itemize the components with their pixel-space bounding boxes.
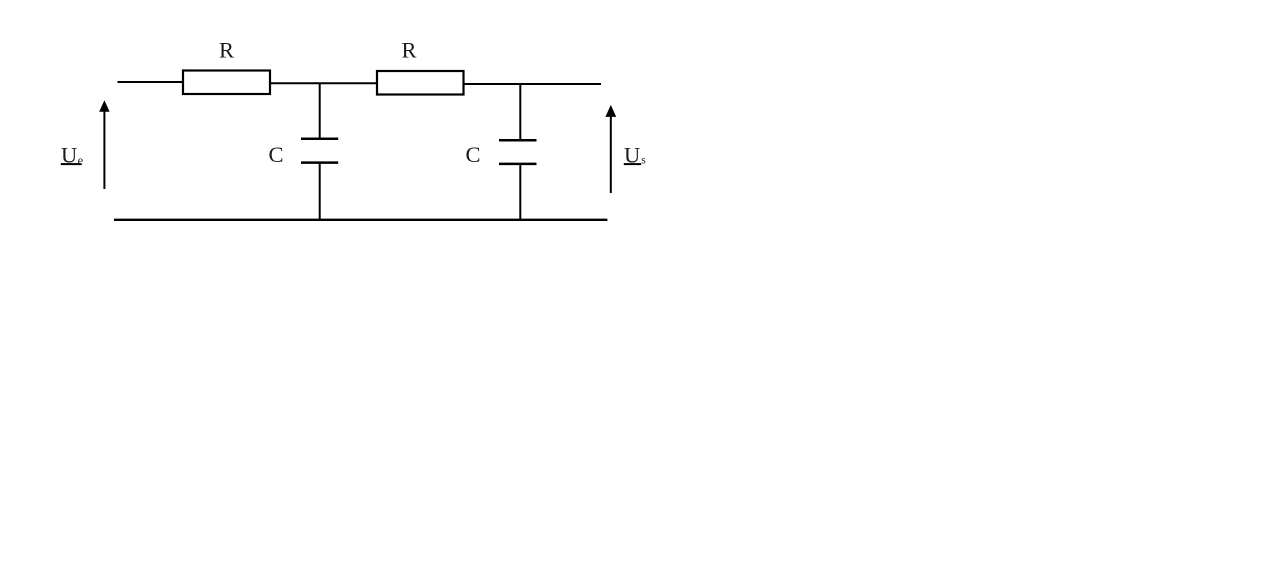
label C (right capacitor) [466,142,481,167]
label Us (output voltage, underlined with subscript s) [624,142,647,167]
label C (left capacitor) [269,142,284,167]
wire: top middle segment between resistors [270,82,377,84]
svg-text:C: C [466,142,481,167]
capacitor C2 (right shunt capacitor) [499,140,537,220]
resistor R1 (left series resistor) [183,71,270,95]
node: junction of C1 with top wire [319,83,321,138]
label R (left resistor) [219,37,234,62]
resistor R2 (right series resistor) [377,71,464,95]
capacitor C1 (left shunt capacitor) [301,139,338,220]
svg-text:e: e [78,154,84,168]
node: junction of C2 with top wire [519,84,521,140]
arrow: output voltage reference arrow [605,105,616,193]
label R (right resistor) [402,37,417,62]
wire: top right segment to output [464,83,602,85]
wire: input top lead [118,81,185,83]
wire: bottom return conductor [114,219,607,221]
arrow: input voltage reference arrow [99,100,109,189]
label Ue (input voltage, underlined with subscript e) [61,142,84,167]
svg-text:s: s [641,155,646,167]
svg-text:C: C [269,142,284,167]
svg-text:R: R [219,37,234,62]
svg-text:R: R [402,37,417,62]
